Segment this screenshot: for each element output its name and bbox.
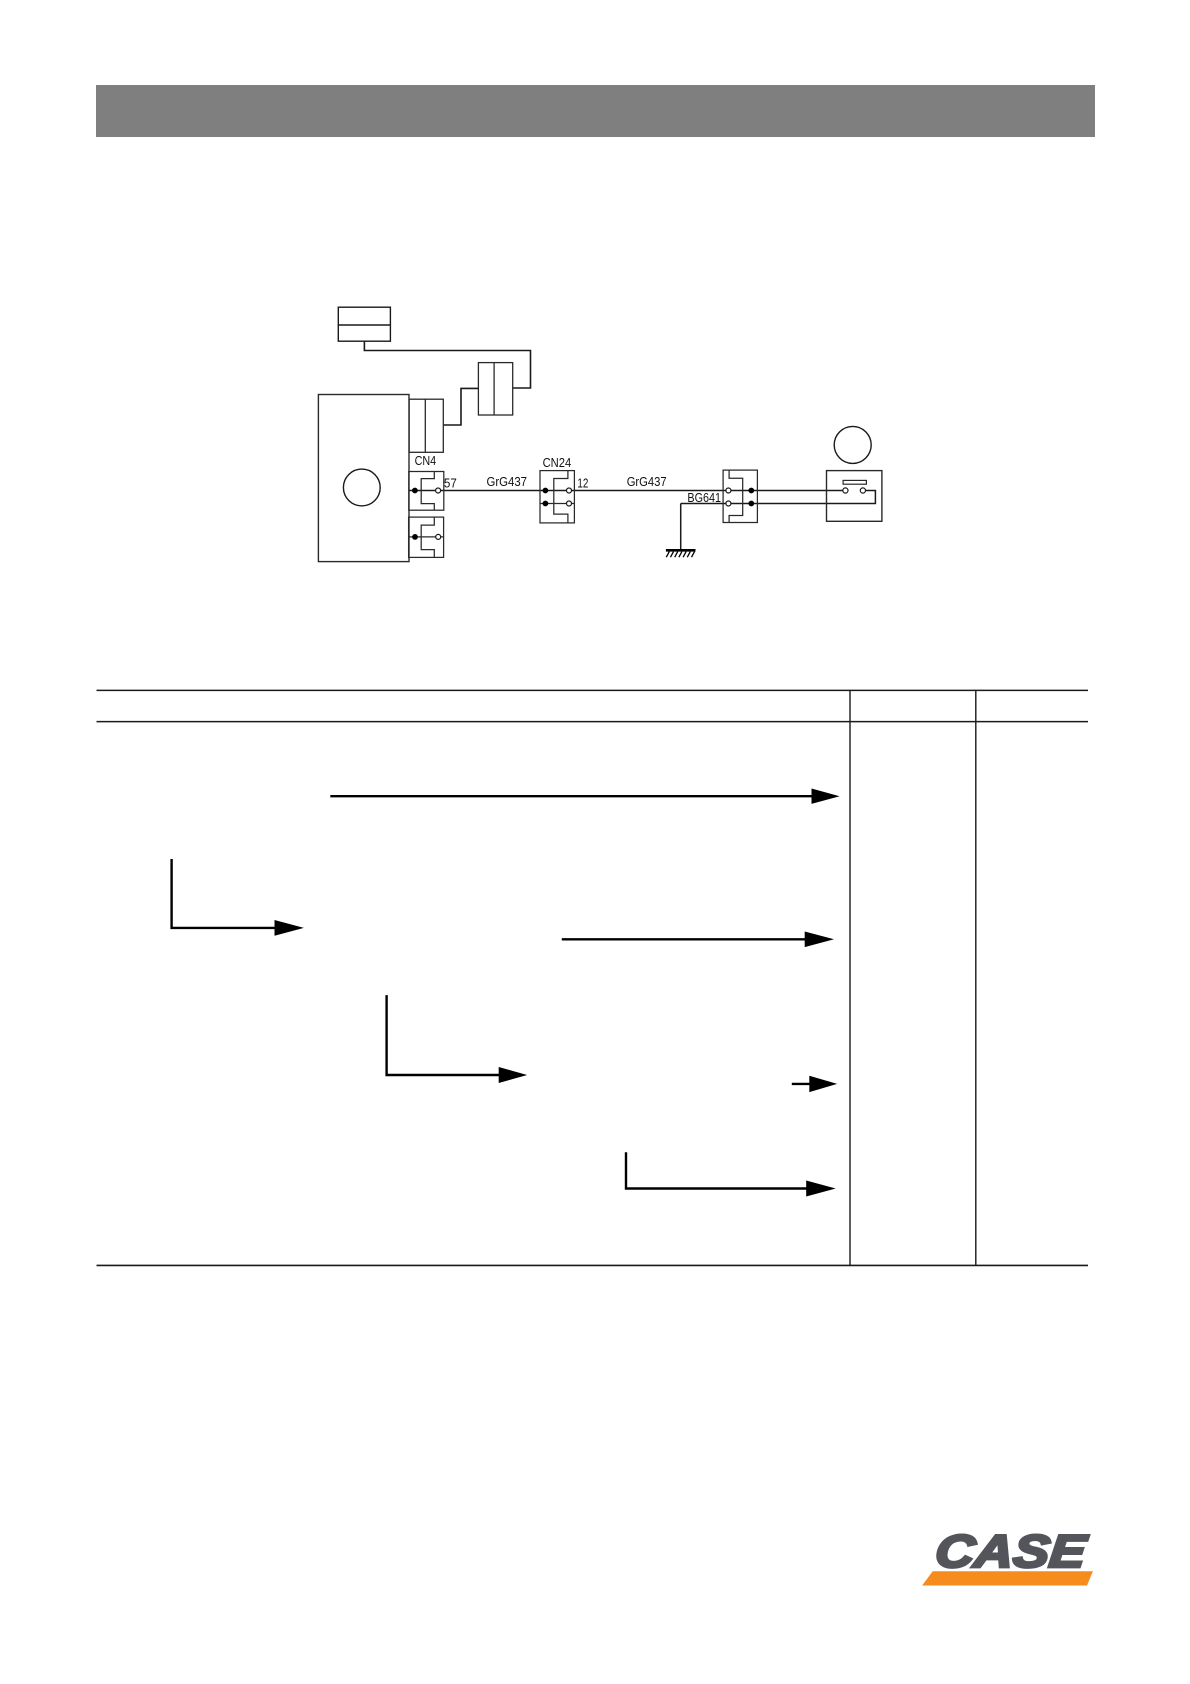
table column rule 2 — [975, 690, 977, 1265]
switch bar — [843, 480, 866, 484]
switch terminal left — [843, 488, 848, 493]
pin dot CN4 lower — [412, 534, 418, 540]
pin socket CN24 row2 — [567, 501, 572, 506]
pin dot BG row2 — [748, 501, 754, 507]
fuse F1 — [478, 363, 512, 415]
flow arrow 5 — [792, 1076, 837, 1092]
ground — [666, 550, 696, 557]
pin dot CN24 row2 — [543, 501, 549, 507]
switch terminal right — [860, 488, 865, 493]
svg-text:12: 12 — [577, 476, 588, 491]
connector BG (right, mirrored) — [723, 470, 757, 522]
table bottom rule — [97, 1264, 1089, 1266]
svg-text:57: 57 — [444, 476, 457, 491]
pin dot CN4-57 — [412, 488, 418, 494]
controller circle — [343, 469, 380, 506]
table column rule 1 — [849, 690, 851, 1265]
flow arrow 1 — [330, 789, 839, 804]
flow arrow 2 — [172, 859, 304, 936]
wire from fusible link to fuse — [364, 341, 530, 388]
svg-text:CN24: CN24 — [543, 455, 572, 470]
svg-text:GrG437: GrG437 — [627, 474, 667, 489]
CASE logo text — [933, 1525, 1090, 1577]
switch indicator circle — [834, 426, 871, 463]
wire BG641 row — [681, 491, 876, 504]
flow arrow 6 — [626, 1152, 836, 1196]
pin dot BG row1 — [748, 488, 754, 494]
pin socket CN4 lower — [436, 534, 441, 539]
wire from fuse to relay — [443, 388, 478, 425]
pin dot CN24 row1 — [543, 488, 549, 494]
relay K1 — [409, 399, 443, 452]
ground stem wire — [680, 504, 682, 551]
pin socket BG row1 — [726, 488, 731, 493]
flow arrow 3 — [562, 932, 834, 948]
table header rule — [97, 721, 1089, 723]
header bar — [96, 85, 1095, 137]
pin socket CN4-57 — [436, 488, 441, 493]
svg-text:GrG437: GrG437 — [487, 474, 528, 489]
fusible link box F2 — [338, 307, 390, 341]
connector CN4 lower — [409, 517, 444, 557]
svg-text:CASE: CASE — [933, 1525, 1090, 1577]
pin socket BG row2 — [726, 501, 731, 506]
table top rule — [97, 689, 1089, 691]
wire GrG437 row (CN4 pin 57 to switch) — [409, 490, 846, 492]
connector CN24 — [540, 471, 574, 523]
connector CN4 (pin 57) — [409, 472, 444, 511]
svg-text:CN4: CN4 — [415, 453, 437, 468]
flow arrow 4 — [387, 995, 528, 1083]
switch box — [827, 471, 882, 522]
controller box — [318, 395, 409, 562]
pin socket CN24 row1 — [567, 488, 572, 493]
CASE logo underline — [922, 1571, 1093, 1585]
